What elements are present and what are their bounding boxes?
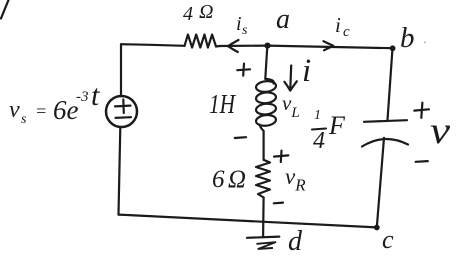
svg-text:6e: 6e	[53, 95, 79, 125]
svg-text:ν: ν	[9, 97, 20, 123]
inductor L 1H coil	[265, 79, 273, 84]
minus sign resistor 6ohm	[274, 202, 283, 205]
arrow i_c head (points right)	[324, 41, 334, 50]
svg-text:4: 4	[183, 3, 193, 25]
plus sign capacitor	[414, 103, 429, 118]
svg-text:b: b	[400, 22, 415, 54]
wire node b down to capacitor	[388, 48, 393, 120]
minus sign in source	[116, 116, 132, 119]
voltage source Vs circle	[106, 96, 137, 127]
fraction bar 1/4	[312, 129, 326, 130]
svg-text:νR: νR	[285, 164, 306, 195]
svg-text:c: c	[343, 24, 350, 40]
svg-text:d: d	[288, 226, 303, 257]
wire bottom	[119, 215, 377, 228]
arrow i (down) at inductor	[284, 66, 296, 91]
ground symbol	[247, 237, 279, 238]
svg-text:=: =	[35, 101, 47, 121]
arrow i_s head (points left)	[228, 40, 239, 52]
svg-text:1H: 1H	[209, 89, 236, 119]
wire node a to node b	[268, 46, 393, 49]
corner mark	[1, 0, 9, 19]
svg-text:s: s	[21, 112, 27, 127]
svg-text:i: i	[302, 53, 311, 89]
speck near b	[424, 42, 426, 44]
plus sign resistor 6ohm	[274, 151, 288, 162]
wire resistor to node a	[220, 44, 268, 47]
svg-text:ν: ν	[430, 110, 450, 152]
svg-text:4: 4	[313, 128, 325, 154]
svg-text:i: i	[236, 13, 242, 35]
svg-text:s: s	[242, 23, 248, 38]
svg-text:-3: -3	[76, 89, 89, 105]
svg-text:1: 1	[314, 108, 321, 123]
wire capacitor to node c	[377, 138, 384, 228]
wire top-left horizontal	[121, 44, 185, 46]
wire left vertical top	[120, 44, 122, 96]
resistor R 4ohm	[185, 35, 220, 48]
plus sign inductor	[237, 64, 250, 76]
svg-text:t: t	[91, 79, 100, 112]
wire node a down to inductor	[265, 46, 267, 79]
svg-text:c: c	[382, 225, 394, 254]
wire inductor to resistor 6ohm	[263, 131, 265, 160]
svg-text:a: a	[276, 4, 290, 35]
node b	[390, 45, 396, 51]
plus sign in source	[115, 100, 131, 114]
svg-text:6Ω: 6Ω	[212, 166, 246, 193]
capacitor C bottom plate (curved)	[362, 139, 408, 147]
node a	[264, 43, 270, 49]
svg-text:νL: νL	[282, 91, 300, 121]
svg-text:F: F	[328, 111, 346, 140]
svg-text:i: i	[335, 13, 341, 37]
resistor R 6ohm	[256, 160, 270, 198]
wire resistor to ground	[262, 198, 265, 237]
node c	[374, 225, 380, 231]
wire left vertical bottom	[119, 127, 121, 214]
minus sign capacitor	[416, 160, 428, 163]
capacitor C top plate	[364, 120, 407, 122]
svg-text:Ω: Ω	[199, 1, 213, 23]
minus sign inductor	[235, 136, 246, 139]
